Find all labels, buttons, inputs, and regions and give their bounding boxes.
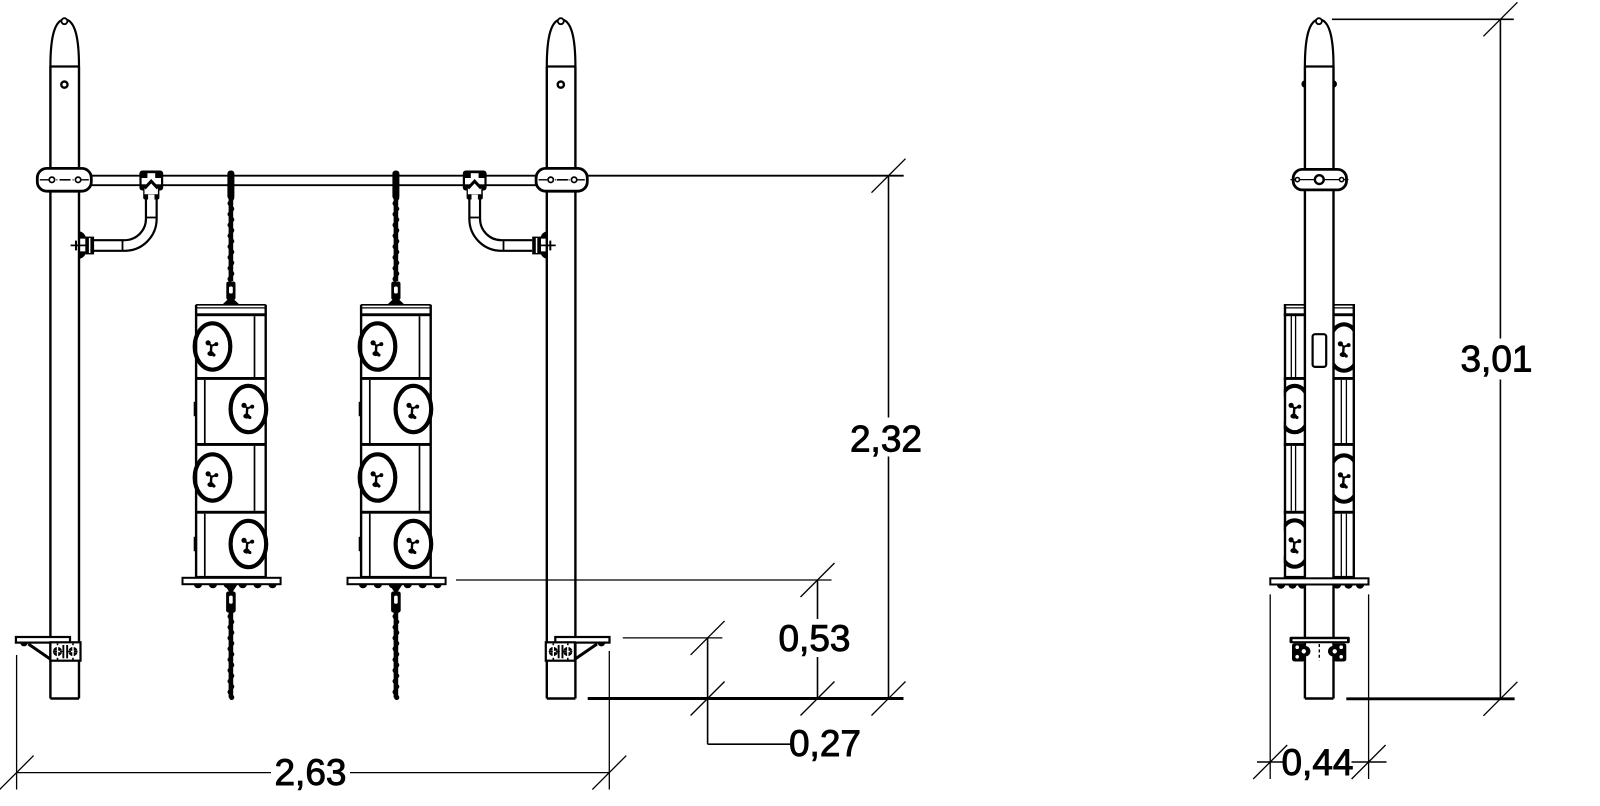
pole at x=64.7 bbox=[50, 18, 79, 698]
svg-text:2,32: 2,32 bbox=[850, 418, 922, 459]
shackle above cylinder 1 bbox=[222, 282, 239, 305]
pole at x=561.1 bbox=[547, 18, 576, 698]
dimension 3,01 bbox=[1332, 2, 1533, 716]
shackle above cylinder 2 bbox=[387, 282, 404, 305]
flange at pole 2 bbox=[532, 231, 556, 259]
chain 2 lower bbox=[393, 608, 400, 700]
side view clamp bbox=[1291, 169, 1349, 190]
svg-text:2,63: 2,63 bbox=[274, 752, 346, 793]
elbow pipe 1 bbox=[94, 200, 157, 251]
side view base plate bbox=[1270, 578, 1368, 588]
dimension 0,44 bbox=[1253, 594, 1386, 783]
dimension 0,27 bbox=[623, 621, 861, 764]
chain 1 lower bbox=[228, 608, 235, 700]
flange at pole 1 bbox=[71, 231, 95, 259]
svg-text:0,44: 0,44 bbox=[1281, 742, 1353, 783]
svg-text:3,01: 3,01 bbox=[1460, 339, 1532, 380]
base plate 2 bbox=[348, 578, 446, 613]
pole clamp right bbox=[536, 168, 587, 191]
svg-text:0,53: 0,53 bbox=[778, 618, 850, 659]
chain top link at bar x=395.9 bbox=[392, 171, 399, 200]
ground bracket pole 2 bbox=[546, 637, 610, 661]
cylinder element 2 bbox=[359, 305, 432, 579]
top bar bbox=[91, 176, 903, 186]
ground line side view bbox=[1346, 697, 1514, 700]
dimension 2,63 bbox=[0, 651, 626, 793]
pole at x=1319.2 bbox=[1305, 18, 1334, 698]
pole clamp left bbox=[37, 168, 91, 191]
label plate on side pole bbox=[1313, 334, 1327, 367]
hanger fitting 2 bbox=[463, 171, 487, 202]
chain top link at bar x=230.9 bbox=[227, 171, 234, 200]
side view ground bracket bbox=[1290, 637, 1350, 662]
hanger fitting 1 bbox=[139, 171, 163, 202]
elbow pipe 2 bbox=[469, 200, 532, 251]
dimension 2,32 bbox=[850, 159, 922, 716]
ground line front view bbox=[588, 697, 904, 700]
dimension 0,53 bbox=[456, 563, 851, 716]
ground bracket pole 1 bbox=[16, 637, 81, 661]
side view pole hole bumps bbox=[1301, 80, 1305, 88]
svg-text:0,27: 0,27 bbox=[789, 723, 861, 764]
cylinder element 1 bbox=[194, 305, 266, 579]
base plate 1 bbox=[183, 578, 281, 613]
